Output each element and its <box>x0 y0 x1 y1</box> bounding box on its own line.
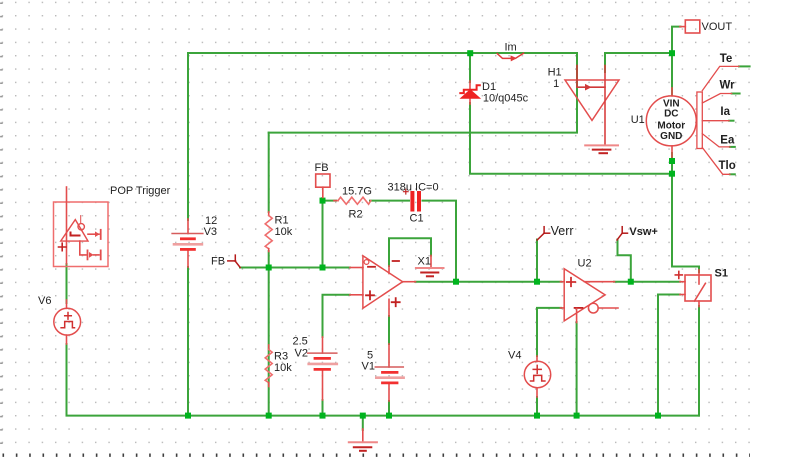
svg-text:V3: V3 <box>204 226 217 238</box>
svg-text:Im: Im <box>505 42 517 54</box>
svg-text:10k: 10k <box>274 362 292 374</box>
svg-text:R1: R1 <box>275 215 289 227</box>
POP trigger hook inside <box>71 233 80 236</box>
node R1 / FB wire <box>266 265 272 271</box>
wire R1/R3 column x268.7 <box>268 133 270 212</box>
node X1 output <box>453 279 459 285</box>
svg-text:DC: DC <box>664 109 678 120</box>
U1 pin rect <box>697 92 702 149</box>
U1 top pin <box>671 88 673 96</box>
X1 minus supply label <box>393 260 399 262</box>
R1 resistor <box>268 212 270 216</box>
H1 right vertical to ground <box>604 66 606 146</box>
wire VOUT branch <box>672 27 681 95</box>
svg-text:1: 1 <box>553 78 559 90</box>
V2 battery <box>322 337 324 353</box>
wire U2 bottom supply to rail <box>576 322 578 416</box>
U2 output pin <box>585 281 615 283</box>
svg-text:Motor: Motor <box>657 121 685 132</box>
R2 resistor <box>334 200 338 202</box>
svg-text:X1: X1 <box>418 256 431 268</box>
svg-text:318u IC=0: 318u IC=0 <box>388 182 439 194</box>
node rail V4 <box>534 413 540 419</box>
node FB column / X1 minus <box>320 265 326 271</box>
svg-text:10/q045c: 10/q045c <box>483 92 529 104</box>
POP trigger triangle <box>61 220 88 242</box>
wire Verr drop <box>536 240 538 282</box>
wire V6 top from POP <box>66 264 68 303</box>
R3 resistor <box>268 345 270 350</box>
node rail S1 <box>655 413 661 419</box>
wire motor pin stubs green <box>739 65 750 67</box>
svg-text:S1: S1 <box>715 268 728 280</box>
U2 minus input stub <box>561 307 565 309</box>
svg-text:Verr: Verr <box>551 224 574 238</box>
svg-text:Ea: Ea <box>720 134 735 146</box>
U1 bottom pin <box>671 146 673 157</box>
wire D1 column and y174 run <box>469 53 471 82</box>
wire y267.5 FB node <box>240 267 350 269</box>
node Vsw+ <box>628 279 634 285</box>
node motor GND pin <box>669 158 675 164</box>
wire X1 plus input and V2 column <box>323 295 351 337</box>
Verr net tick <box>537 227 550 240</box>
POP trigger output2 path <box>80 241 86 255</box>
POP trigger output1 line with bar <box>88 233 99 235</box>
X1 bottom supply pin <box>388 299 390 316</box>
node rail ground <box>360 413 366 419</box>
wire top rail y53 left segment <box>188 53 577 220</box>
X1 minus dash inside <box>368 266 375 268</box>
wire FB terminal to R2 <box>323 198 337 201</box>
POP trigger stem above bubble <box>80 216 82 224</box>
wire S1 bottom to rail <box>698 306 700 416</box>
wire R2 to C1 <box>370 200 409 202</box>
wire X1 bottom supply to V1 <box>388 316 390 344</box>
svg-text:U2: U2 <box>578 258 592 270</box>
V4 pulse source <box>524 361 550 387</box>
V3 battery <box>187 219 189 234</box>
svg-text:R3: R3 <box>274 351 288 363</box>
V6 pulse source <box>54 308 81 335</box>
X1 output pin <box>403 281 416 283</box>
U2 comparator triangle <box>564 269 605 321</box>
wire top rail y53 right segment <box>605 52 672 54</box>
U1 pin Ia <box>702 120 729 122</box>
svg-text:Tlo: Tlo <box>719 160 736 172</box>
U1 pin Ea <box>702 134 730 147</box>
wire motor bottom to S1 top <box>672 153 699 272</box>
FB terminal square (top) <box>316 174 330 187</box>
svg-text:C1: C1 <box>410 213 424 225</box>
U1 pin Wr <box>702 94 731 104</box>
U2 inverted output line <box>598 307 618 309</box>
wire V2 bottom to rail <box>322 400 324 416</box>
wire Vsw+ drop <box>618 240 631 282</box>
POP trigger bubble <box>78 224 84 230</box>
node Verr <box>534 279 540 285</box>
U2 minus dash inside <box>575 307 583 309</box>
H1 arrow line <box>577 86 605 88</box>
U2 plus inside <box>567 278 575 286</box>
node rail V1 <box>386 413 392 419</box>
FB net tick (left, near V3) <box>228 255 240 267</box>
svg-text:V6: V6 <box>38 295 51 307</box>
U1 pin Tlo <box>702 148 730 175</box>
svg-text:Te: Te <box>720 53 733 65</box>
X1 input stubs <box>350 267 363 269</box>
wire C1 right to X1 out junction <box>423 201 457 282</box>
wire V4 bottom to rail <box>536 397 538 416</box>
S1 pin stubs <box>680 281 685 283</box>
X1 top supply pin <box>388 266 390 274</box>
Im current probe <box>497 54 511 59</box>
wire X1 top supply to its ground <box>389 238 431 266</box>
U2 bottom supply pin <box>576 309 578 323</box>
wire X1 output to U2 <box>415 281 561 283</box>
S1 blade <box>698 276 700 285</box>
svg-text:V2: V2 <box>295 348 308 360</box>
svg-text:Wr: Wr <box>720 80 736 92</box>
main ground <box>362 429 364 442</box>
X1 plus supply label <box>392 298 400 306</box>
node motor / y174 wire <box>669 171 675 177</box>
X1 opamp triangle <box>363 256 403 308</box>
H1 CCVS triangle <box>565 80 619 120</box>
svg-text:R2: R2 <box>349 209 363 221</box>
X1 input bubble <box>364 260 369 265</box>
svg-text:POP Trigger: POP Trigger <box>110 185 171 197</box>
svg-text:FB: FB <box>211 256 225 268</box>
wire bottom rail <box>67 344 700 416</box>
H1 ground <box>585 144 618 146</box>
svg-text:10k: 10k <box>275 226 293 238</box>
POP trigger plus <box>59 243 67 251</box>
C1 capacitor <box>410 193 414 210</box>
U1 DC motor circle <box>646 96 696 146</box>
wire U2 minus input from V4 <box>537 308 561 356</box>
wire S1 pin2 to rail <box>658 295 680 416</box>
U2 plus input stub <box>561 281 565 283</box>
X1 ground <box>430 256 432 268</box>
S1 plus <box>675 271 682 278</box>
wire main ground stem <box>362 416 364 430</box>
node top rail / VOUT / motor <box>669 50 675 56</box>
node rail V3 <box>185 413 191 419</box>
svg-text:V4: V4 <box>508 350 521 362</box>
wire V3 bottom to rail <box>187 267 189 416</box>
X1 plus inside <box>366 291 374 299</box>
svg-text:VOUT: VOUT <box>702 21 733 33</box>
svg-text:15.7G: 15.7G <box>342 186 372 198</box>
wire H1 right stub top <box>604 53 606 72</box>
svg-text:H1: H1 <box>548 67 562 79</box>
wire U2 output to S1 <box>614 281 680 283</box>
svg-text:FB: FB <box>315 162 329 174</box>
svg-text:2.5: 2.5 <box>293 336 308 348</box>
wire FB vertical x322.5 <box>322 203 324 268</box>
S1 switch box <box>685 275 711 301</box>
svg-text:D1: D1 <box>482 81 496 93</box>
wire V1 bottom to rail <box>388 401 390 416</box>
POP Trigger box <box>54 202 109 267</box>
node rail V2 <box>320 413 326 419</box>
Vsw+ net tick <box>617 227 628 240</box>
V1 battery <box>388 344 390 367</box>
U2 inverted output bubble <box>588 303 598 313</box>
POP trigger input wire <box>66 187 68 264</box>
node rail R3 <box>266 413 272 419</box>
svg-text:V1: V1 <box>362 361 375 373</box>
svg-text:GND: GND <box>660 131 682 142</box>
svg-text:Ia: Ia <box>720 106 730 118</box>
node rail U2 <box>574 413 580 419</box>
U1 pin Te <box>702 66 739 90</box>
svg-text:Vsw+: Vsw+ <box>629 226 657 238</box>
svg-text:U1: U1 <box>631 114 645 126</box>
VOUT terminal <box>685 20 700 33</box>
node FB junction <box>320 198 326 204</box>
node top rail / D1 <box>467 50 473 56</box>
H1 pin left vertical (red overlay) <box>576 66 578 88</box>
wire x577 down from top rail to wire B <box>269 53 577 133</box>
D1 zener diode <box>469 81 471 90</box>
